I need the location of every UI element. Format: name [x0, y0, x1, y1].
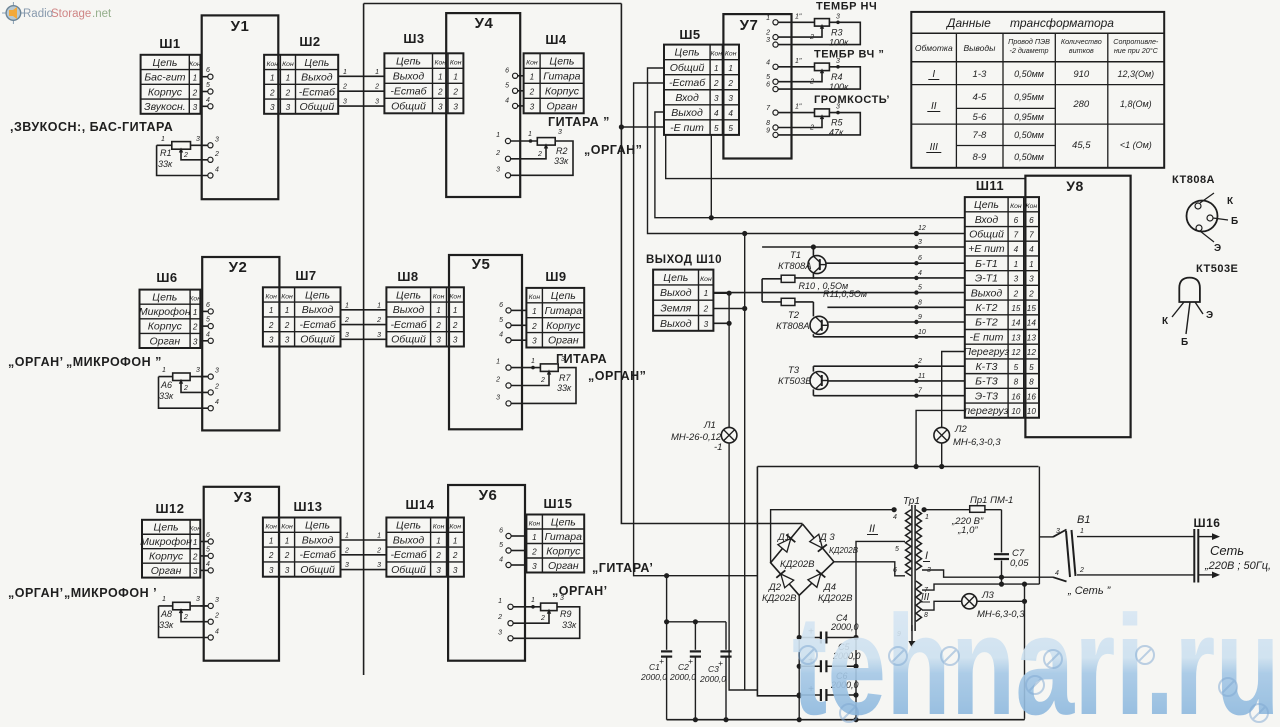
svg-text:3: 3 — [196, 136, 200, 143]
svg-text:Кон: Кон — [433, 524, 445, 531]
svg-text:2: 2 — [452, 87, 458, 96]
svg-text:1: 1 — [530, 72, 535, 81]
svg-text:Выход: Выход — [660, 287, 692, 299]
svg-text:КТ808А: КТ808А — [778, 261, 812, 272]
svg-text:R7: R7 — [559, 373, 571, 383]
svg-text:Ш5: Ш5 — [679, 27, 700, 42]
svg-text:1: 1 — [728, 64, 733, 73]
svg-text:1: 1 — [436, 536, 441, 545]
svg-text:„ОРГАН’: „ОРГАН’ — [8, 586, 64, 600]
svg-text:1: 1 — [269, 536, 274, 545]
svg-text:Кон: Кон — [266, 61, 278, 68]
svg-text:1: 1 — [453, 536, 458, 545]
svg-text:КТ503Е: КТ503Е — [778, 376, 812, 387]
svg-text:3: 3 — [728, 94, 733, 103]
svg-text:Цепь: Цепь — [304, 57, 329, 69]
capacitor C3 2000 — [725, 622, 727, 650]
svg-text:8: 8 — [1029, 378, 1034, 387]
svg-text:Цепь: Цепь — [549, 55, 574, 67]
svg-text:2: 2 — [344, 547, 349, 554]
wire tap7 line — [922, 584, 1039, 590]
svg-text:Цепь: Цепь — [675, 47, 700, 59]
svg-text:13: 13 — [1027, 333, 1037, 342]
svg-text:1: 1 — [162, 596, 166, 603]
svg-text:10: 10 — [1027, 407, 1037, 416]
svg-text:2: 2 — [214, 613, 219, 620]
svg-text:Ш13: Ш13 — [293, 499, 322, 514]
svg-text:2: 2 — [1013, 289, 1019, 298]
svg-text:100к: 100к — [829, 37, 849, 47]
wires Sh7 to Sh8 — [341, 309, 387, 311]
svg-text:3: 3 — [215, 597, 219, 604]
svg-text:3: 3 — [343, 99, 347, 106]
svg-text:2: 2 — [529, 87, 535, 96]
svg-text:-2 диаметр: -2 диаметр — [1009, 46, 1048, 55]
svg-text:У5: У5 — [472, 256, 491, 273]
svg-text:6: 6 — [505, 67, 509, 74]
wire peregruz16 down — [916, 410, 965, 466]
wire C1 riser — [666, 576, 668, 650]
connector table Sh2 — [264, 55, 338, 114]
svg-text:-Естаб: -Естаб — [299, 86, 336, 98]
svg-text:33к: 33к — [562, 620, 577, 630]
svg-text:1: 1 — [286, 74, 291, 83]
svg-text:4: 4 — [499, 557, 503, 564]
svg-text:4: 4 — [1055, 570, 1059, 577]
svg-text:1: 1 — [496, 359, 500, 366]
svg-text:3: 3 — [498, 629, 502, 636]
svg-text:Кон: Кон — [526, 59, 538, 66]
svg-text:Выход: Выход — [393, 304, 425, 316]
svg-text:5: 5 — [206, 317, 210, 324]
svg-text:„ОРГАН”: „ОРГАН” — [588, 369, 646, 383]
svg-text:2: 2 — [285, 88, 291, 97]
svg-text:2: 2 — [537, 151, 542, 158]
svg-text:2: 2 — [268, 321, 274, 330]
connector table Sh1 — [141, 55, 201, 114]
svg-text:Корпус: Корпус — [149, 551, 184, 563]
svg-text:12,3(Ом): 12,3(Ом) — [1117, 69, 1154, 79]
svg-text:-Е пит: -Е пит — [670, 122, 704, 134]
svg-text:ГИТАРА ”: ГИТАРА ” — [548, 115, 610, 129]
svg-text:Кон: Кон — [189, 296, 201, 303]
wire bridge left to tap4 — [771, 510, 895, 563]
svg-text:910: 910 — [1073, 69, 1090, 80]
wire bottom rail — [667, 719, 1025, 721]
potentiometer R5 47к (ГРОМКОСТЬ’) — [773, 110, 778, 115]
svg-text:1: 1 — [531, 358, 535, 365]
svg-text:33к: 33к — [557, 383, 572, 393]
svg-text:3: 3 — [836, 13, 840, 20]
svg-text:ВЫХОД Ш10: ВЫХОД Ш10 — [646, 254, 722, 266]
svg-text:А8: А8 — [160, 609, 172, 619]
svg-text:3: 3 — [193, 337, 198, 346]
lamp L1 MN-26 — [721, 427, 737, 443]
svg-text:3: 3 — [345, 332, 349, 339]
svg-text:3: 3 — [436, 336, 441, 345]
svg-text:ние при 20°С: ние при 20°С — [1114, 46, 1159, 55]
svg-text:5: 5 — [714, 124, 719, 133]
svg-text:Ш2: Ш2 — [299, 34, 320, 49]
svg-text:МН-6,3-0,3: МН-6,3-0,3 — [953, 437, 1001, 448]
svg-text:6: 6 — [893, 567, 897, 574]
svg-text:Кон: Кон — [265, 293, 277, 300]
svg-text:Т2: Т2 — [788, 310, 800, 321]
svg-text:Кон: Кон — [1010, 203, 1022, 210]
svg-text:Цепь: Цепь — [974, 199, 999, 211]
svg-text:2: 2 — [376, 317, 381, 324]
svg-text:4-5: 4-5 — [973, 92, 987, 103]
svg-text:Общий: Общий — [670, 62, 705, 74]
svg-text:2: 2 — [269, 88, 275, 97]
logo RadioStorage.net — [2, 2, 112, 24]
wire Sh10 out1 — [713, 292, 729, 294]
svg-text:5-6: 5-6 — [973, 112, 987, 123]
svg-text:Общий: Общий — [300, 334, 335, 346]
svg-text:1-3: 1-3 — [973, 69, 987, 80]
svg-text:Звукосн.: Звукосн. — [144, 101, 186, 113]
capacitor C5 2000 — [799, 665, 821, 667]
svg-text:2: 2 — [214, 151, 219, 158]
svg-text:Корпус: Корпус — [148, 321, 183, 333]
svg-text:6: 6 — [499, 302, 503, 309]
svg-text:1: 1 — [269, 306, 274, 315]
svg-text:Корпус: Корпус — [148, 86, 183, 98]
svg-text:2: 2 — [435, 321, 441, 330]
svg-text:33к: 33к — [159, 391, 174, 401]
svg-text:Выход: Выход — [302, 304, 334, 316]
svg-text:У8: У8 — [1066, 178, 1084, 194]
svg-text:3: 3 — [530, 102, 535, 111]
svg-text:Гитара: Гитара — [545, 531, 582, 543]
svg-text:3: 3 — [496, 166, 500, 173]
svg-text:Кон: Кон — [1026, 203, 1038, 210]
wire under U8 — [757, 466, 1038, 468]
resistor R1 33k — [201, 144, 208, 146]
svg-text:7: 7 — [1014, 230, 1019, 239]
svg-text:3: 3 — [193, 567, 198, 576]
svg-text:3: 3 — [704, 320, 709, 329]
svg-text:Количество: Количество — [1061, 37, 1102, 46]
svg-text:R1: R1 — [160, 148, 172, 158]
svg-text:0,50мм: 0,50мм — [1014, 130, 1044, 140]
capacitor C4 2000 — [799, 637, 821, 639]
svg-text:4: 4 — [206, 561, 210, 568]
U5 output pins 6,5,4 — [511, 309, 526, 311]
svg-text:Ш6: Ш6 — [156, 270, 177, 285]
svg-text:Общий: Общий — [300, 564, 335, 576]
svg-text:Л1: Л1 — [703, 420, 716, 431]
svg-text:перегруз: перегруз — [964, 405, 1008, 417]
connector table Sh14 — [386, 518, 464, 577]
svg-text:-Естаб: -Естаб — [669, 77, 706, 89]
svg-text:Орган: Орган — [149, 335, 180, 347]
svg-text:1: 1 — [1029, 260, 1034, 269]
svg-text:.net: .net — [92, 8, 112, 20]
svg-text:10: 10 — [1011, 407, 1021, 416]
svg-text:3: 3 — [377, 562, 381, 569]
svg-text:4: 4 — [1014, 245, 1019, 254]
svg-text:Общий: Общий — [299, 101, 334, 113]
wire -Estab drop — [634, 83, 758, 576]
svg-text:4: 4 — [215, 629, 219, 636]
svg-text:„ГИТАРА’: „ГИТАРА’ — [592, 561, 653, 575]
capacitor C6 2000 — [799, 694, 821, 696]
wire common vertical x744 — [744, 234, 746, 691]
svg-text:„ОРГАН’: „ОРГАН’ — [8, 355, 64, 369]
resistor R6 33k — [200, 376, 208, 378]
svg-text:33к: 33к — [554, 156, 569, 166]
svg-text:47к: 47к — [829, 128, 844, 138]
svg-text:3: 3 — [286, 103, 291, 112]
svg-text:Выход: Выход — [971, 287, 1003, 299]
svg-text:3: 3 — [1056, 528, 1060, 535]
svg-text:У4: У4 — [475, 15, 494, 32]
svg-text:Общий: Общий — [391, 100, 426, 112]
svg-text:280: 280 — [1072, 99, 1090, 110]
svg-text:1: 1 — [377, 533, 381, 540]
svg-text:+: + — [688, 656, 693, 666]
connector table Sh3 — [384, 53, 463, 113]
svg-text:2: 2 — [531, 322, 537, 331]
svg-text:1,8(Ом): 1,8(Ом) — [1120, 99, 1152, 109]
svg-text:14: 14 — [1027, 319, 1037, 328]
wire L1 feed vertical — [728, 293, 730, 427]
watermark tehnari.ru — [792, 586, 1280, 727]
svg-text:Сеть: Сеть — [1210, 543, 1244, 558]
svg-text:3: 3 — [558, 129, 562, 136]
svg-text:5: 5 — [1029, 363, 1034, 372]
svg-text:4: 4 — [499, 332, 503, 339]
svg-text:-Естаб: -Естаб — [390, 319, 427, 331]
wire Sh5 pin drop — [710, 135, 712, 218]
svg-text:2: 2 — [452, 551, 458, 560]
svg-text:2: 2 — [703, 304, 709, 313]
resistor R2 33k — [505, 138, 510, 143]
svg-text:Ш11: Ш11 — [976, 178, 1004, 193]
svg-text:У1: У1 — [231, 18, 250, 35]
svg-text:Ш12: Ш12 — [155, 501, 184, 516]
svg-text:Цепь: Цепь — [154, 522, 179, 534]
wire bridge right to tap6 — [834, 562, 905, 576]
svg-text:Кон: Кон — [433, 293, 445, 300]
U6 output pins 6,5,4 — [511, 535, 526, 537]
resistor R11 0.5om — [762, 301, 781, 303]
svg-text:2: 2 — [437, 87, 443, 96]
svg-text:2: 2 — [284, 551, 290, 560]
svg-text:2000,0: 2000,0 — [640, 672, 667, 682]
svg-text:0,95мм: 0,95мм — [1014, 112, 1044, 122]
block U8 — [1025, 176, 1130, 438]
wire fuse down — [1001, 510, 1003, 553]
wire Sh5 Obschy to Sh11 Obschy — [648, 68, 965, 234]
svg-text:-Е пит: -Е пит — [970, 331, 1004, 343]
svg-text:Т3: Т3 — [788, 365, 800, 376]
svg-text:Т1: Т1 — [790, 250, 801, 261]
svg-text:-Естаб: -Естаб — [299, 549, 336, 561]
svg-text:Корпус: Корпус — [546, 320, 581, 332]
svg-text:Кон: Кон — [281, 524, 293, 531]
svg-text:R2: R2 — [556, 146, 568, 156]
svg-text:5: 5 — [499, 542, 503, 549]
svg-text:Э: Э — [1214, 243, 1222, 254]
wire R10-R11 bracket — [761, 279, 763, 302]
svg-text:Цепь: Цепь — [152, 292, 177, 304]
svg-text:Д 3: Д 3 — [819, 532, 835, 543]
block U3 — [204, 487, 279, 661]
capacitor C7 0.05 — [994, 553, 1009, 555]
svg-text:3: 3 — [918, 239, 922, 246]
svg-text:2: 2 — [374, 84, 379, 91]
svg-text:1: 1 — [766, 15, 770, 22]
svg-text:2: 2 — [284, 321, 290, 330]
svg-text:Общий: Общий — [391, 564, 426, 576]
svg-text:-Естаб: -Естаб — [390, 85, 427, 97]
svg-text:2: 2 — [495, 377, 500, 384]
svg-text:3: 3 — [215, 136, 219, 143]
svg-text:КТ808А: КТ808А — [776, 321, 810, 332]
svg-text:„ОРГАН’: „ОРГАН’ — [552, 584, 608, 598]
svg-text:3: 3 — [1029, 275, 1034, 284]
svg-text:II: II — [869, 523, 875, 535]
svg-text:4: 4 — [766, 59, 770, 66]
svg-text:Пр1 ПМ-1: Пр1 ПМ-1 — [970, 495, 1013, 506]
svg-text:2: 2 — [531, 547, 537, 556]
block U6 — [448, 485, 525, 661]
svg-text:3: 3 — [270, 103, 275, 112]
connector table Sh7 — [263, 287, 341, 346]
svg-text:5: 5 — [499, 317, 503, 324]
svg-text:2: 2 — [809, 125, 814, 132]
svg-text:4: 4 — [505, 97, 509, 104]
svg-text:Кон: Кон — [281, 293, 293, 300]
svg-text:Земля: Земля — [660, 302, 691, 314]
svg-text:4: 4 — [714, 109, 719, 118]
svg-text:Выводы: Выводы — [963, 43, 996, 53]
svg-text:6: 6 — [1014, 216, 1019, 225]
block U7 — [723, 14, 791, 158]
wire Sh10 out3 — [713, 322, 729, 324]
svg-text:Б-Т2: Б-Т2 — [975, 317, 998, 329]
svg-text:КД202В: КД202В — [829, 546, 859, 555]
svg-text:Выход: Выход — [301, 72, 333, 84]
transistor T3 KT503E — [810, 372, 828, 390]
wire -Epit bus to bridge — [621, 126, 664, 128]
svg-text:1: 1 — [193, 74, 198, 83]
svg-text:Сопротивле-: Сопротивле- — [1113, 37, 1159, 46]
svg-text:Цепь: Цепь — [663, 272, 688, 284]
svg-text:У2: У2 — [229, 259, 248, 276]
svg-text:4: 4 — [1029, 245, 1034, 254]
svg-text:Кон: Кон — [700, 276, 712, 283]
svg-text:Цепь: Цепь — [152, 57, 177, 69]
svg-text:6: 6 — [206, 302, 210, 309]
svg-text:Гитара: Гитара — [543, 70, 580, 82]
svg-text:2: 2 — [727, 79, 733, 88]
svg-text:8: 8 — [918, 299, 922, 306]
svg-text:Б-Т1: Б-Т1 — [975, 258, 998, 270]
svg-text:К: К — [1162, 316, 1169, 327]
svg-text:4: 4 — [728, 109, 733, 118]
svg-text:4: 4 — [206, 331, 210, 338]
capacitor C2 2000 — [694, 622, 696, 650]
svg-text:3: 3 — [714, 94, 719, 103]
svg-text:100к: 100к — [829, 82, 849, 92]
svg-text:4: 4 — [918, 270, 922, 277]
svg-text:Выход: Выход — [302, 534, 334, 546]
svg-text:+: + — [659, 656, 664, 666]
svg-text:Цепь: Цепь — [305, 289, 330, 301]
connector table Sh15 — [526, 515, 584, 573]
svg-text:Кон: Кон — [282, 61, 294, 68]
svg-text:9: 9 — [766, 127, 770, 134]
wire tap1 to fuse — [922, 509, 970, 511]
svg-text:3: 3 — [766, 37, 770, 44]
svg-text:2: 2 — [435, 551, 441, 560]
svg-text:45,5: 45,5 — [1072, 140, 1091, 151]
svg-text:III: III — [930, 142, 939, 153]
svg-text:2000,0: 2000,0 — [699, 674, 726, 684]
svg-text:Орган: Орган — [547, 100, 578, 112]
svg-text:0,50мм: 0,50мм — [1014, 152, 1044, 162]
svg-text:3: 3 — [196, 367, 200, 374]
svg-text:5: 5 — [895, 546, 899, 553]
svg-text:3: 3 — [453, 336, 458, 345]
svg-text:6: 6 — [499, 528, 503, 535]
svg-text:2: 2 — [183, 385, 188, 392]
svg-text:Кон: Кон — [529, 520, 541, 527]
svg-text:Б: Б — [1231, 216, 1239, 227]
wire bridge bottom down — [798, 595, 800, 719]
svg-text:3: 3 — [285, 566, 290, 575]
svg-text:Общий: Общий — [969, 228, 1004, 240]
svg-text:6: 6 — [918, 255, 922, 262]
resistor R10 0.5om — [762, 278, 781, 280]
svg-text:2: 2 — [452, 321, 458, 330]
svg-text:2: 2 — [497, 614, 502, 621]
svg-text:I: I — [925, 550, 928, 562]
svg-text:3: 3 — [215, 368, 219, 375]
svg-text:1: 1 — [496, 132, 500, 139]
svg-text:3: 3 — [193, 103, 198, 112]
svg-text:13: 13 — [1011, 333, 1021, 342]
svg-text:Цепь: Цепь — [305, 520, 330, 532]
capacitor C1 2000 — [661, 650, 672, 652]
svg-text:Кон: Кон — [710, 51, 722, 58]
U2 input pins 6,5,4 — [200, 310, 208, 312]
svg-text:Кон: Кон — [449, 293, 461, 300]
svg-text:2: 2 — [268, 551, 274, 560]
block U2 — [202, 257, 279, 430]
svg-text:2: 2 — [1028, 289, 1034, 298]
svg-text:Ш1: Ш1 — [159, 36, 180, 51]
svg-text:1: 1 — [498, 598, 502, 605]
svg-text:3: 3 — [269, 566, 274, 575]
svg-text:4: 4 — [206, 97, 210, 104]
svg-text:Ш9: Ш9 — [545, 269, 566, 284]
svg-text:Гитара: Гитара — [545, 305, 582, 317]
svg-text:9: 9 — [918, 314, 922, 321]
lamp L3 MN-6.3-0.3 — [962, 594, 977, 609]
svg-text:R11,0,5Ом: R11,0,5Ом — [823, 289, 867, 299]
svg-text:2: 2 — [540, 615, 545, 622]
svg-text:3: 3 — [1014, 275, 1019, 284]
svg-text:1: 1 — [531, 597, 535, 604]
svg-text:Кон: Кон — [529, 294, 541, 301]
svg-text:16: 16 — [1027, 392, 1037, 401]
svg-text:3: 3 — [196, 596, 200, 603]
svg-text:Ш4: Ш4 — [545, 32, 567, 47]
